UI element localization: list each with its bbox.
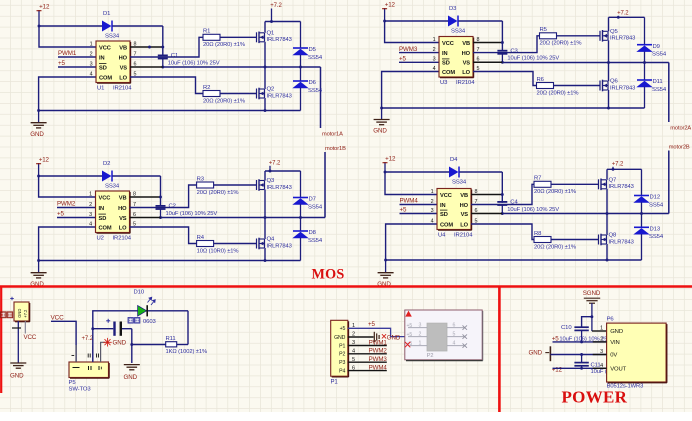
value 10uF (106) 10% 25V (C11) [591,369,643,375]
svg-text:D4: D4 [450,157,458,163]
svg-text:D7: D7 [309,197,316,203]
svg-text:D8: D8 [309,230,317,236]
svg-text:VOUT: VOUT [610,367,626,373]
designator U1 IR2104 [97,85,132,91]
svg-text:Q7: Q7 [609,177,617,183]
wire Q5 source to phase node [608,40,610,62]
svg-text:LO: LO [119,225,127,231]
red divider vertical left [0,287,2,394]
svg-text:R11: R11 [166,336,176,342]
power port GND (regulator) [103,338,126,347]
svg-text:D13: D13 [650,227,661,233]
wire GND bottom rail [386,259,642,261]
op-amp/driver IC U2 IR2104 [96,191,131,233]
svg-text:1: 1 [419,341,422,347]
wire phase to D8 [300,218,302,232]
svg-text:+5: +5 [407,323,413,329]
junction VB net [148,46,151,49]
svg-text:P1: P1 [331,380,339,386]
svg-text:10uF (106) 10% 25V: 10uF (106) 10% 25V [166,211,218,217]
svg-text:0603: 0603 [143,319,157,325]
diode D3 SS34 [448,6,466,35]
ground GND [377,260,393,288]
svg-text:HO: HO [462,51,471,57]
wire +12 to VCC pin 1 [39,26,96,47]
diode D2 SS34 [102,161,120,190]
svg-text:P3: P3 [339,360,345,366]
wire D13 anode to GND rail [641,234,643,260]
wire LO pin 5 to R6 [473,72,537,86]
wire COM pin 4 to GND rail [386,224,437,260]
junction +7.2 rail [612,168,615,171]
svg-text:Q1: Q1 [267,30,275,36]
wire R11 net [132,311,188,345]
wire D1 cathode to bootstrap node [113,26,163,55]
svg-text:20Ω (20R0) ±1%: 20Ω (20R0) ±1% [203,98,245,104]
svg-text:2: 2 [419,332,422,338]
junction R11 branch [130,343,133,346]
pin numbers 1-4 [90,41,93,77]
svg-text:D3: D3 [449,6,457,12]
regulator pin 1 (VCC in) [72,345,77,362]
P6 pin numbers 1-4 [600,326,603,369]
ground GND (connector) [10,363,26,380]
junction VB / cap [501,41,504,44]
svg-text:IRLR7843: IRLR7843 [609,184,634,190]
wire GND bottom rail [39,260,301,262]
svg-text:C11: C11 [591,362,601,368]
svg-text:1: 1 [433,37,436,43]
svg-text:PWM3: PWM3 [399,46,418,53]
svg-text:PWM3: PWM3 [369,356,388,363]
junction C11 / +12 wire [580,367,583,370]
svg-text:SD: SD [99,65,107,71]
wire R4 to Q4 gate [214,243,257,245]
capacitor C1 10uF [158,55,168,67]
junction phase / Q source [264,216,267,219]
power port +5 [58,60,66,67]
junction +12 node [383,20,386,23]
svg-text:SS54: SS54 [649,202,664,208]
svg-text:VB: VB [119,45,127,51]
svg-text:GND: GND [610,329,623,335]
designator P1 [331,380,339,386]
wire HO pin 7 to R7 [471,184,534,204]
ground GND [30,111,46,138]
wire cap to GND branch [122,329,132,363]
transistor Q4 IRLR7843 [257,237,292,250]
svg-text:R3: R3 [197,176,205,182]
svg-text:0V: 0V [610,353,617,359]
label 接头 (header) [1,312,13,318]
op-amp/driver IC U3 IR2104 [439,37,474,78]
wire +12 to D4 anode [385,171,449,173]
svg-text:1: 1 [90,41,93,47]
wire LO pin 5 to R2 [130,77,203,94]
svg-text:U1: U1 [97,85,104,91]
svg-text:VS: VS [119,216,127,222]
junction C10 / +5 wire [580,340,583,343]
regulator pin 2 (GND) [88,346,93,362]
svg-text:SS54: SS54 [308,55,323,61]
wire COM pin 4 to GND rail [39,227,96,261]
svg-text:2: 2 [433,47,436,53]
wire R1 to Q1 gate [220,36,257,38]
power port +7.2 [269,161,281,172]
wire Q8 drain to phase node [606,214,608,236]
junction Q source / GND rail [264,109,267,112]
svg-text:20Ω (20R0) ±1%: 20Ω (20R0) ±1% [534,189,576,195]
diode D8 SS54 [292,230,323,244]
wire COM pin 4 to GND rail [382,72,439,109]
wire GND bottom rail [382,107,645,109]
svg-text:4: 4 [89,221,92,227]
svg-text:R1: R1 [203,29,210,35]
svg-text:Q5: Q5 [610,29,618,35]
svg-text:P2: P2 [339,352,345,358]
svg-text:D1: D1 [103,11,110,17]
svg-text:+5: +5 [407,332,413,338]
wire Q7 source to phase node [606,189,608,214]
junction +12 node [37,175,40,178]
junction VB / cap [501,193,504,196]
capacitor C10 10uF [574,327,588,342]
op-amp/driver IC U1 IR2104 [96,41,131,83]
pin numbers 8-5 [477,37,480,72]
svg-text:GND: GND [529,349,543,356]
designator U4 IR2104 [438,232,473,238]
net label +5 (power) [552,336,560,343]
wire VB pin 8 to bootstrap cap [130,196,161,198]
svg-text:10Ω (10R0) ±1%: 10Ω (10R0) ±1% [197,248,239,254]
junction phase / diode [299,216,302,219]
svg-text:R2: R2 [203,85,210,91]
svg-text:6: 6 [453,323,456,329]
wire LO pin 5 to R4 [130,227,197,244]
svg-text:U3: U3 [440,80,448,86]
svg-text:IRLR7843: IRLR7843 [267,243,292,249]
wire VS pin 6 to phase node [130,66,163,68]
svg-text:+5: +5 [399,56,407,63]
wire GND bottom rail [39,110,301,112]
power port +5 [57,211,65,218]
svg-text:IRLR7843: IRLR7843 [609,239,634,245]
svg-text:motor2B: motor2B [669,144,690,150]
wire PWM4 to IN pin 2 [400,204,438,206]
svg-text:Q6: Q6 [610,79,618,85]
svg-text:IN: IN [99,55,105,61]
ground GND (LED circuit) [124,365,140,381]
svg-text:+7.2: +7.2 [270,3,282,9]
red divider horizontal [0,285,692,287]
junction GND rail [37,109,40,112]
wire PWM1 to IN pin 2 [58,56,96,58]
designator C4 [510,200,518,206]
masked module left pins [407,323,428,347]
svg-text:+12: +12 [39,4,50,11]
designator C3 [510,48,518,54]
svg-text:GND: GND [334,335,346,341]
svg-text:P1: P1 [339,343,345,349]
svg-text:SD: SD [99,216,107,222]
svg-text:VB: VB [460,193,468,199]
svg-text:SD: SD [440,212,448,218]
svg-text:+5: +5 [57,211,65,218]
transistor Q6 IRLR7843 [600,79,635,92]
wire VS pin 6 to phase node [471,213,502,215]
wire VS pin 6 to phase node [130,217,161,219]
svg-text:IRLR7843: IRLR7843 [267,37,292,43]
svg-text:1: 1 [431,189,434,195]
svg-text:GND: GND [124,374,138,381]
power port GND bar (power) [529,346,551,361]
power port +12 (U4 block) [383,156,396,173]
resistor R4 10Ω (10R0) ±1% [197,235,239,254]
svg-text:motor2A: motor2A [670,126,691,132]
svg-text:2: 2 [431,199,434,205]
svg-text:D5: D5 [309,47,317,53]
junction Q source / GND rail [607,107,610,110]
wire +5 to SD pin 3 [399,61,439,63]
wire +5 to SD pin 3 [400,213,438,215]
junction phase / diode [299,66,302,69]
svg-text:1: 1 [89,191,92,197]
svg-text:Q8: Q8 [609,233,617,239]
power port +7.2 [617,11,629,18]
connector P4 power input header [14,302,30,322]
svg-text:4: 4 [453,341,456,347]
wire D4 cathode to bootstrap node [460,172,503,203]
value 10uF (106) 10% 25V [507,56,559,62]
wire D12 anode to phase node [641,202,643,213]
svg-text:SS54: SS54 [652,52,667,58]
masked IC body [427,323,447,359]
svg-text:D10: D10 [134,289,145,295]
svg-text:COM: COM [99,225,112,231]
svg-text:20Ω (20R0) ±1%: 20Ω (20R0) ±1% [203,42,245,48]
resistor R3 20Ω (20R0) ±1% [197,176,239,195]
svg-text:U4: U4 [438,232,446,238]
wire SGND to pin 1 [592,317,607,331]
svg-text:R5: R5 [540,27,548,33]
resistor R11 1KΩ [166,336,208,355]
wire D5 anode to phase node [300,55,302,67]
net label motor2B [669,144,690,213]
svg-text:+5: +5 [340,326,346,332]
capacitor C4 10uF [497,202,507,214]
svg-text:4: 4 [431,218,434,224]
net label motor1A [321,67,344,138]
diode D4 SS34 [449,157,467,186]
wire +12 to VCC pin 1 [385,172,437,195]
wire +12 to D2 anode [39,175,102,177]
svg-text:IR2104: IR2104 [113,235,132,241]
diode D12 SS54 [633,195,664,209]
svg-text:IRLR7843: IRLR7843 [610,36,635,42]
wire R8 to Q8 gate [551,239,599,241]
junction GND rail [380,107,383,110]
svg-text:VB: VB [119,195,127,201]
svg-text:10uF (106) 10% 25V: 10uF (106) 10% 25V [168,60,220,66]
svg-text:+7.2: +7.2 [617,11,629,17]
wire Q3 source to phase node [264,190,266,218]
junction cap / VS [501,61,504,64]
svg-text:IN: IN [442,51,448,57]
svg-text:LO: LO [460,222,468,228]
junction +12 node [38,25,41,28]
wire phase to D6 [300,67,302,81]
svg-text:B0512s-1WR3: B0512s-1WR3 [607,384,644,390]
svg-text:SS34: SS34 [452,180,467,186]
masked module sheet [405,310,483,361]
svg-text:1: 1 [600,326,603,332]
wire +12 to VCC pin 1 [385,21,439,43]
wire Q4 source to GND rail [264,248,266,261]
wire D2 cathode to bootstrap node [113,176,161,205]
svg-text:PWM4: PWM4 [369,364,388,371]
designator U2 IR2104 [97,235,132,241]
value B0512s-1WR3 [607,384,644,390]
ground GND (P1) rotated [374,332,401,342]
power port +12 (U3 block) [382,2,395,22]
wire PWM3 to IN pin 2 [399,52,439,54]
value 10uF (106) 10% 25V [168,60,220,66]
value 10uF (106) 10% 25V [507,207,559,213]
designator D10 [134,289,145,295]
svg-text:D9: D9 [653,44,660,50]
svg-text:VS: VS [463,61,471,67]
svg-text:VB: VB [462,41,470,47]
net labels PWM1-PWM4 [369,339,388,371]
svg-text:C1: C1 [171,53,178,59]
wire +12 to VCC pin 1 [39,176,96,197]
svg-text:3: 3 [90,61,93,67]
ground GND [373,108,389,135]
wire Q2 drain to phase node [264,67,266,89]
wire +7.2 rail to D7 [300,171,302,198]
wire phase node motor2A [502,62,668,64]
pin numbers 8-5 [133,191,136,227]
transistor Q5 IRLR7843 [600,29,635,42]
svg-text:motor1B: motor1B [325,146,346,152]
svg-text:SW-TO3: SW-TO3 [69,387,92,393]
ground GND [30,261,46,288]
wire D11 anode to GND rail [644,87,646,108]
svg-text:COM: COM [442,70,455,76]
wire +12 to D1 anode [39,25,102,27]
svg-text:D12: D12 [650,195,661,201]
wire VB pin 8 to bootstrap cap [471,194,502,196]
transistor Q3 IRLR7843 [257,178,292,191]
pin numbers 1-4 [89,191,92,227]
junction phase / diode [640,212,643,215]
junction cap / VS [161,66,164,69]
junction phase / Q source [606,212,609,215]
svg-text:PWM2: PWM2 [369,348,388,355]
pin numbers 8-5 [134,41,137,77]
wire VB pin 8 to bootstrap cap [473,42,502,44]
section title MOS [312,266,345,282]
P1 pin numbers 1-6 [352,323,355,371]
junction cap branch [91,327,94,330]
svg-text:R4: R4 [197,235,205,241]
svg-text:Q4: Q4 [267,237,275,243]
svg-text:IR2104: IR2104 [113,85,132,91]
wire Q1 drain to +7.2 rail [265,22,301,33]
svg-text:IRLR7843: IRLR7843 [267,93,292,99]
svg-text:MOS: MOS [312,266,345,282]
junction cap / VS [501,212,504,215]
svg-text:P5: P5 [69,380,77,386]
wire +12 to VOUT pin 4 [553,367,607,369]
svg-text:D6: D6 [309,80,317,86]
transistor Q2 IRLR7843 [257,87,292,100]
svg-text:VS: VS [461,212,469,218]
junction +7.2 rail [270,20,273,23]
wire R3 to Q3 gate [214,184,257,186]
pin numbers 1-4 [431,189,434,225]
svg-text:IRLR7843: IRLR7843 [610,85,635,91]
svg-text:VS: VS [120,65,128,71]
wire +7.2 rail to D5 [300,22,302,49]
wire SGND to C10 [582,317,592,327]
svg-text:IRLR7843: IRLR7843 [267,185,292,191]
svg-text:3: 3 [419,323,422,329]
polarized cap mark [12,327,21,329]
svg-text:SS54: SS54 [308,204,323,210]
junction Q source / GND rail [606,259,609,262]
net label PWM3 [399,46,418,53]
wire Q8 source to GND rail [606,244,608,260]
svg-text:Q2: Q2 [267,87,275,93]
transistor Q8 IRLR7843 [599,233,634,246]
wire connector pin 2 VCC stub [24,321,26,334]
svg-text:HO: HO [118,206,127,212]
svg-text:C3: C3 [510,48,518,54]
svg-text:1KΩ (1002) ±1%: 1KΩ (1002) ±1% [166,349,208,355]
svg-text:+7.2: +7.2 [23,309,28,318]
svg-text:3: 3 [89,212,92,218]
svg-text:VCC: VCC [24,334,37,341]
diode D6 SS54 [292,80,323,94]
wire Q5 drain to +7.2 rail [609,17,645,31]
svg-text:GND: GND [10,373,24,380]
svg-text:SS34: SS34 [105,34,120,40]
resistor R1 20Ω (20R0) ±1% [203,29,245,48]
svg-text:R6: R6 [537,77,545,83]
resistor R2 20Ω (20R0) ±1% [203,85,245,104]
svg-text:20Ω (20R0) ±1%: 20Ω (20R0) ±1% [197,190,239,196]
svg-text:+5: +5 [400,207,408,214]
value 10uF (106) 10% 25V (C10) [559,336,611,342]
svg-text:IN: IN [440,203,446,209]
power port +7.2 [270,3,282,21]
wire D6 anode to GND rail [300,88,302,111]
wire GND to 0V pin 3 [550,354,606,356]
svg-text:GND: GND [30,131,44,138]
svg-text:+12: +12 [552,366,563,373]
designator C2 [169,204,176,210]
regulator P5 SW-TO3 [69,362,109,378]
svg-text:P4: P4 [339,369,345,375]
net label +12 (power) [552,366,563,373]
diode D11 SS54 [636,79,667,93]
svg-text:R8: R8 [534,231,542,237]
junction phase / diode [643,61,646,64]
wire VCC to regulator pin 3 [51,321,76,362]
wire D9 anode to phase node [644,52,646,63]
resistor R8 20Ω (20R0) ±1% [534,231,576,250]
